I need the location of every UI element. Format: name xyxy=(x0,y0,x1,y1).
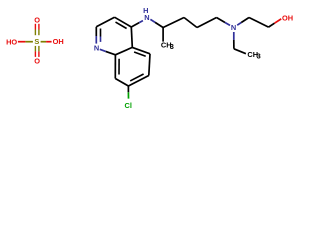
bond N-CH2f xyxy=(233,32,235,40)
bond C8a-N1 xyxy=(106,51,116,54)
svg-text:S: S xyxy=(34,37,39,46)
svg-text:O: O xyxy=(34,57,40,66)
bond C4-NH xyxy=(131,23,139,27)
bond C4-C4a xyxy=(131,27,132,47)
bond CH2f-CH3 xyxy=(234,49,246,54)
bond CH2a-CH2b xyxy=(184,18,197,28)
bond N-CH2d xyxy=(237,23,241,26)
bond C7-Cl xyxy=(127,86,129,92)
svg-text:N: N xyxy=(231,23,236,32)
S=O double bond (bottom) xyxy=(35,46,39,57)
svg-text:Cl: Cl xyxy=(124,101,131,110)
svg-text:N: N xyxy=(144,13,149,22)
bond CH2d-CH2e xyxy=(249,18,269,28)
bond CH2e-OH xyxy=(269,23,275,27)
bond C6=C7 (double) xyxy=(128,74,148,86)
bond C4a=C5 (double) xyxy=(132,47,150,56)
bond CH2c-N xyxy=(217,18,226,23)
svg-text:3: 3 xyxy=(257,52,261,61)
bond C2-C3 xyxy=(96,17,114,27)
svg-text:OH: OH xyxy=(53,37,64,46)
bond S-OH xyxy=(41,41,52,43)
bond CH-CH2a xyxy=(163,18,184,28)
svg-text:OH: OH xyxy=(282,13,293,22)
bond CH2b-CH2c xyxy=(197,18,217,28)
svg-text:O: O xyxy=(34,15,40,24)
svg-text:HO: HO xyxy=(6,37,17,46)
bond HO-S xyxy=(18,41,33,43)
bond C7-C8 xyxy=(115,79,128,87)
bond N1=C2 (double) xyxy=(96,27,100,44)
svg-text:3: 3 xyxy=(170,42,174,51)
bond C3=C4 (double) xyxy=(115,17,132,28)
bond C8=C8a (double) xyxy=(115,55,119,79)
svg-text:N: N xyxy=(94,44,99,53)
bond NH-CH xyxy=(150,19,155,22)
bond C5-C6 xyxy=(149,54,150,76)
bond C8a-C4a (fusion) xyxy=(115,47,132,54)
bond CH-CH3 xyxy=(162,28,164,42)
S=O double bond (top) xyxy=(35,24,39,35)
